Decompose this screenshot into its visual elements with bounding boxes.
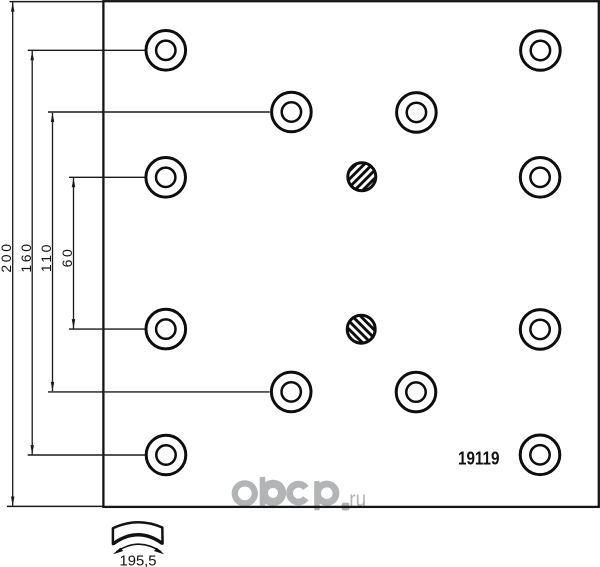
section symbol inner arc (bold) (113, 535, 163, 544)
arrow 200 top (11, 2, 15, 11)
rivet hole H1 (left col, row 1) (146, 31, 186, 71)
rivet hole H10 (right col, row 2) (520, 158, 560, 198)
rivet hole H4 (left col, row 4) (146, 435, 186, 475)
svg-text:19119: 19119 (458, 448, 500, 469)
dimension line 160 (31, 51, 33, 455)
svg-text:160: 160 (18, 241, 34, 272)
connector 160 bottom (28, 454, 146, 456)
arrow 110 top (51, 113, 55, 122)
watermark letter a (ring) (235, 483, 255, 503)
svg-text:200: 200 (0, 241, 14, 272)
arrowhead left (113, 548, 123, 555)
watermark dot (342, 503, 350, 511)
rivet hole H3 (left col, row 3) (146, 309, 186, 349)
arrow 160 bottom (30, 445, 34, 454)
arrow 200 bottom (11, 497, 15, 506)
rivet hole H6 (col 2, bottom) (271, 372, 311, 412)
extension line top-left (10, 1, 104, 3)
connector 110 top (48, 111, 270, 113)
rivet hole H7 (col 3, top) (397, 93, 437, 133)
dimension line 110 (52, 113, 54, 392)
connector 110 bottom (48, 391, 270, 393)
backing plate outline (103, 1, 598, 507)
svg-text:195,5: 195,5 (119, 554, 156, 567)
arrow 160 top (30, 51, 34, 60)
rivet hole H11 (right col, row 3) (520, 310, 560, 350)
rivet hole H12 (right col, row 4) (520, 435, 560, 475)
section symbol: curved lining band (113, 522, 163, 544)
rivet hole H2 (left col, row 2) (146, 158, 186, 198)
dimension line 200 (12, 2, 14, 506)
hatched marker hole M2 (bottom) (347, 315, 375, 343)
rivet hole H9 (right col, row 1) (521, 31, 561, 71)
connector 60 bottom (69, 328, 145, 330)
dimension line 60 (73, 178, 75, 329)
connector 60 top (69, 176, 145, 178)
arrow 60 top (72, 178, 76, 187)
watermark letter b (260, 477, 282, 506)
watermark letter c (290, 484, 306, 502)
svg-text:110: 110 (38, 242, 54, 272)
rivet hole H5 (col 2, top) (272, 92, 312, 132)
extension line bottom-left (7, 505, 103, 507)
arrowhead right (154, 548, 164, 555)
watermark letter p (314, 481, 336, 510)
connector 160 top (28, 49, 145, 51)
curved dimension arrow 195,5 (117, 544, 162, 552)
svg-text:60: 60 (59, 247, 75, 268)
rivet hole H8 (col 3, bottom) (396, 372, 436, 412)
arrow 110 bottom (51, 382, 55, 391)
hatched marker hole M1 (top) (348, 163, 376, 191)
arrow 60 bottom (72, 319, 76, 328)
